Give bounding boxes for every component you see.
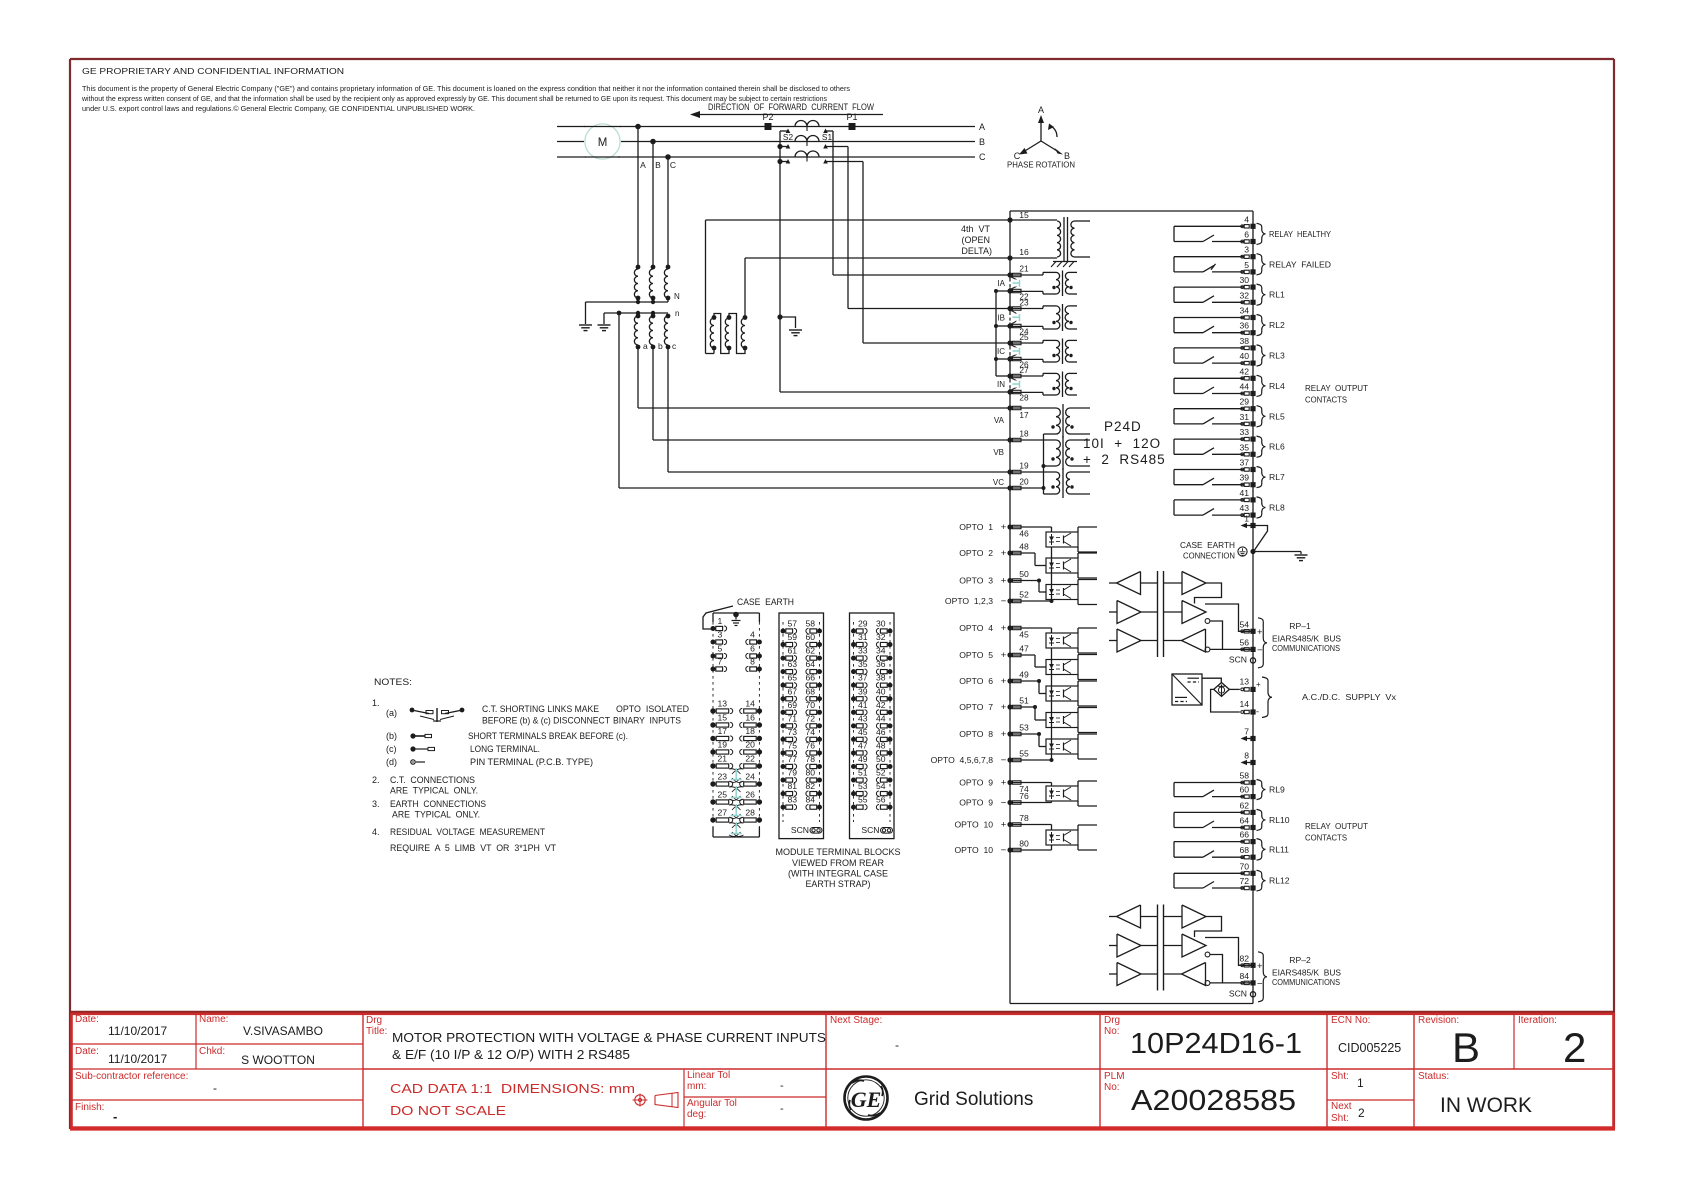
svg-text:82: 82 [805,781,815,791]
VT input VA (terminal 17) [1007,405,1012,410]
svg-text:41: 41 [858,700,868,710]
svg-text:62: 62 [1239,800,1249,810]
block2 terminal 78 [817,764,822,769]
svg-text:69: 69 [788,700,798,710]
block1 terminal 5 [711,654,716,659]
svg-text:46: 46 [876,727,886,737]
wire: IC secondary drop [862,162,864,344]
block2 terminal 79 [781,778,786,783]
svg-text:84: 84 [805,795,815,805]
wire: IN to terminal 28 [780,391,1010,393]
svg-text:EARTH CONNECTIONS: EARTH CONNECTIONS [390,799,486,809]
svg-text:+: + [1001,820,1007,831]
svg-text:−: − [1001,755,1007,766]
svg-text:Name:: Name: [199,1014,228,1025]
svg-text:B: B [979,137,985,147]
svg-text:DELTA): DELTA) [961,246,992,256]
block1 terminal 22 [757,763,762,768]
relay contact RL11 (terminals 66/68) [1174,841,1244,843]
block2 terminal 67 [781,696,786,701]
svg-text:OPTO 9: OPTO 9 [959,798,993,808]
wire: terminal 15 to open delta [706,219,1011,221]
svg-text:VIEWED FROM REAR: VIEWED FROM REAR [792,858,884,868]
buffer: transmit mid-right [1182,934,1206,957]
svg-text:RL6: RL6 [1269,442,1285,452]
svg-text:35: 35 [858,659,868,669]
svg-text:18: 18 [745,726,755,736]
svg-text:40: 40 [1239,351,1249,361]
svg-text:n: n [675,309,679,318]
block2 terminal 58 [817,629,822,634]
svg-text:76: 76 [805,740,815,750]
svg-text:65: 65 [788,673,798,683]
svg-text:-: - [213,1081,217,1095]
svg-text:MOTOR PROTECTION WITH VOLTAGE: MOTOR PROTECTION WITH VOLTAGE & PHASE CU… [392,1030,826,1045]
svg-text:Drg: Drg [1104,1015,1120,1026]
svg-text:RELAY FAILED: RELAY FAILED [1269,259,1331,269]
wire: to - terminal [1210,982,1253,984]
svg-text:26: 26 [745,790,755,800]
svg-text:10I + 12O: 10I + 12O [1083,436,1161,451]
svg-text:21: 21 [718,754,728,764]
svg-text:S2: S2 [783,132,794,142]
svg-text:A: A [640,160,646,170]
svg-text:32: 32 [1239,290,1249,300]
block3 terminal 51 [851,778,856,783]
svg-text:29: 29 [1239,397,1249,407]
svg-text:59: 59 [788,632,798,642]
CT P2 marker [765,124,771,130]
wire: phase C tap [665,154,671,160]
svg-text:51: 51 [858,768,868,778]
opto common OPTO 4,5,6,7,8 (terminal 55) [1007,757,1012,762]
svg-text:OPTO 5: OPTO 5 [959,650,993,660]
4th VT transformer [1010,219,1057,221]
block1 terminal 8 [757,667,762,672]
svg-text:−: − [1001,845,1007,856]
VT primary winding B [651,265,656,270]
wire: converter to diamond [1202,678,1221,682]
svg-text:23: 23 [718,772,728,782]
svg-text:42: 42 [1239,366,1249,376]
block3 terminal 40 [888,696,893,701]
case earth leader [703,606,733,629]
terminal 15 [1007,217,1012,222]
svg-text:OPTO 9: OPTO 9 [959,778,993,788]
svg-text:EIARS485/K BUS: EIARS485/K BUS [1272,967,1341,977]
wire: VT common rail [1043,434,1045,494]
svg-text:CID005225: CID005225 [1338,1041,1401,1055]
svg-text:Drg: Drg [366,1015,382,1026]
svg-text:20: 20 [1019,477,1029,487]
svg-text:BINARY INPUTS: BINARY INPUTS [613,716,681,726]
CT input IA (terminals 21-22) [1007,272,1012,277]
title block outline [70,1011,1614,1014]
svg-text:20: 20 [745,740,755,750]
svg-text:MODULE TERMINAL BLOCKS: MODULE TERMINAL BLOCKS [776,847,901,857]
svg-text:81: 81 [788,781,798,791]
drawing border frame [70,58,1614,60]
svg-text:38: 38 [876,673,886,683]
block2 terminal 66 [817,683,822,688]
svg-text:V.SIVASAMBO: V.SIVASAMBO [243,1024,323,1038]
svg-text:27: 27 [1019,365,1029,375]
svg-text:58: 58 [1239,771,1249,781]
svg-text:73: 73 [788,727,798,737]
svg-text:GE: GE [851,1087,882,1112]
block3 terminal 43 [851,723,856,728]
ground: CT common earth [789,329,802,331]
phase rotation symbol [1040,120,1042,141]
ground: case earth [1295,554,1308,556]
svg-text:-: - [1256,707,1259,717]
svg-text:ECN No:: ECN No: [1331,1015,1370,1026]
svg-text:+: + [1001,623,1007,634]
node: CT earth tap [777,314,782,319]
svg-text:RELAY OUTPUT: RELAY OUTPUT [1305,821,1369,831]
block3 terminal 31 [851,642,856,647]
arrow: current flow direction [697,114,883,116]
svg-text:+: + [1001,576,1007,587]
svg-text:42: 42 [876,700,886,710]
open delta VT winding 1 [712,315,717,320]
block3 terminal 30 [888,629,893,634]
relay contact RELAY FAILED (terminals 3/5) [1174,256,1244,258]
svg-text:7: 7 [718,657,723,667]
svg-text:6: 6 [1244,230,1249,240]
terminal 54 [1241,630,1244,633]
svg-text:OPTO 10: OPTO 10 [954,845,993,855]
block3 terminal 39 [851,696,856,701]
block3 terminal 37 [851,683,856,688]
svg-text:DO NOT SCALE: DO NOT SCALE [390,1103,506,1118]
svg-text:IC: IC [997,347,1005,356]
svg-text:2: 2 [1358,1106,1365,1120]
opto input OPTO 3 (terminal 50) [1007,578,1012,583]
wire: IA to terminal 21 [833,274,1010,276]
svg-text:51: 51 [1019,696,1029,706]
terminal block 2 outline [779,613,824,839]
svg-text:74: 74 [805,727,815,737]
block2 terminal 73 [781,737,786,742]
svg-text:+: + [1257,627,1263,638]
svg-text:PHASE ROTATION: PHASE ROTATION [1007,160,1075,170]
svg-text:8: 8 [750,657,755,667]
block3 terminal 42 [888,710,893,715]
svg-text:RL2: RL2 [1269,320,1285,330]
svg-text:S1: S1 [822,132,833,142]
ground: 4th VT secondary earth (hatched) [1053,261,1077,263]
block1 terminal 13 [710,708,715,713]
relay contact RL6 (terminals 33/35) [1174,438,1244,440]
svg-text:OPTO 8: OPTO 8 [959,729,993,739]
node n: VT secondary star rail [604,312,668,314]
svg-text:50: 50 [1019,569,1029,579]
AC/DC converter U-PSU [1172,674,1202,705]
svg-text:P1: P1 [846,112,857,122]
svg-text:P2: P2 [762,112,773,122]
block2 terminal 74 [817,737,822,742]
svg-text:RL12: RL12 [1269,876,1290,886]
svg-text:30: 30 [1239,275,1249,285]
svg-text:35: 35 [1239,442,1249,452]
svg-text:25: 25 [718,790,728,800]
svg-text:32: 32 [876,632,886,642]
block3 terminal 53 [851,791,856,796]
buffer: transmit mid-right [1182,601,1206,624]
relay case outline [1010,210,1253,212]
svg-text:43: 43 [858,713,868,723]
svg-text:16: 16 [1019,247,1029,257]
svg-text:75: 75 [788,740,798,750]
block2 terminal 77 [781,764,786,769]
svg-text:56: 56 [876,795,886,805]
svg-text:47: 47 [858,740,868,750]
svg-text:CASE EARTH: CASE EARTH [737,597,794,607]
svg-text:2: 2 [1563,1024,1586,1071]
svg-text:79: 79 [788,768,798,778]
svg-text:COMMUNICATIONS: COMMUNICATIONS [1272,643,1340,653]
wire: inverted output [1210,621,1223,649]
motor M [585,124,620,159]
block3 terminal 47 [851,750,856,755]
block1 terminal 3 [711,640,716,645]
svg-text:7: 7 [1244,727,1249,737]
svg-text:Linear Tol: Linear Tol [687,1070,730,1081]
svg-text:Grid Solutions: Grid Solutions [914,1089,1033,1110]
svg-text:OPTO 10: OPTO 10 [954,820,993,830]
block2 terminal 70 [817,710,822,715]
svg-text:OPTO ISOLATED: OPTO ISOLATED [616,704,689,714]
block1 terminal 19 [710,749,715,754]
block3 terminal 44 [888,723,893,728]
svg-text:25: 25 [1019,332,1029,342]
buffer: receive top [1117,572,1141,595]
svg-text:6: 6 [750,644,755,654]
block3 terminal 50 [888,764,893,769]
svg-text:33: 33 [858,646,868,656]
block1 terminal 28 [757,817,762,822]
svg-text:45: 45 [858,727,868,737]
svg-text:under U.S. export control laws: under U.S. export control laws and regul… [82,104,475,113]
svg-text:−: − [1001,798,1007,809]
svg-text:EARTH STRAP): EARTH STRAP) [806,879,871,889]
relay contact RL8 (terminals 41/43) [1174,499,1244,501]
block2 terminal 60 [817,642,822,647]
VT primary winding C [666,265,671,270]
node: case earth connection [1250,549,1255,554]
svg-text:80: 80 [1019,839,1029,849]
svg-text:15: 15 [718,713,728,723]
svg-text:EIARS485/K BUS: EIARS485/K BUS [1272,633,1341,643]
svg-text:76: 76 [1019,791,1029,801]
svg-text:44: 44 [876,713,886,723]
svg-text:+: + [1001,702,1007,713]
wire: phase A bus [557,126,585,128]
svg-text:82: 82 [1239,953,1249,963]
svg-text:+: + [1257,961,1263,972]
svg-text:11/10/2017: 11/10/2017 [108,1052,167,1066]
fuse/supply diamond [1214,683,1230,697]
svg-text:84: 84 [1239,971,1249,981]
svg-text:64: 64 [1239,816,1249,826]
svg-text:55: 55 [858,795,868,805]
svg-text:NOTES:: NOTES: [374,677,412,687]
svg-text:17: 17 [718,726,728,736]
svg-text:4.: 4. [372,827,380,837]
svg-text:60: 60 [805,632,815,642]
wire: c to terminal 19 [667,347,669,472]
svg-text:31: 31 [1239,412,1249,422]
svg-text:53: 53 [1019,723,1029,733]
wire: phase C bus [557,156,586,158]
svg-text:2.: 2. [372,775,380,785]
svg-text:36: 36 [1239,321,1249,331]
svg-text:GE PROPRIETARY AND CONFIDENTIA: GE PROPRIETARY AND CONFIDENTIAL INFORMAT… [82,66,344,76]
svg-text:78: 78 [805,754,815,764]
svg-text:A20028585: A20028585 [1131,1085,1296,1117]
svg-text:37: 37 [858,673,868,683]
CT primary phase C [795,151,819,157]
relay contact RL4 (terminals 42/44) [1174,377,1244,379]
block1 terminal 4 [757,640,762,645]
opto input OPTO 4 (terminal 45) [1007,625,1012,630]
svg-text:64: 64 [805,659,815,669]
svg-text:1: 1 [718,616,723,626]
svg-text:CAD DATA 1:1 DIMENSIONS: mm: CAD DATA 1:1 DIMENSIONS: mm [390,1081,635,1096]
terminal SCN [1250,992,1255,997]
block1 terminal 14 [757,708,762,713]
svg-text:1: 1 [1357,1076,1364,1090]
svg-text:83: 83 [788,795,798,805]
block2 terminal 76 [817,750,822,755]
svg-text:67: 67 [788,686,798,696]
block3 terminal 35 [851,669,856,674]
svg-text:RL9: RL9 [1269,785,1285,795]
svg-text:OPTO 1: OPTO 1 [959,522,993,532]
svg-text:1: 1 [1244,514,1249,524]
svg-text:4: 4 [1244,214,1249,224]
svg-text:(a): (a) [386,708,397,718]
block1 terminal 1 [711,626,716,631]
svg-text:OPTO 7: OPTO 7 [959,702,993,712]
buffer: transmit top-right [1182,905,1206,928]
block2 terminal 64 [817,669,822,674]
svg-text:B: B [1452,1024,1480,1071]
svg-text:68: 68 [1239,845,1249,855]
wire: to + terminal [1205,938,1253,966]
block1 terminal 27 [710,817,715,822]
opto input OPTO 7 (terminal 51) [1007,704,1012,709]
block1 terminal 17 [710,736,715,741]
svg-text:54: 54 [876,781,886,791]
opto input OPTO 10 (terminals 78/80) [1007,822,1012,827]
svg-text:5: 5 [718,644,723,654]
relay contact RL7 (terminals 37/39) [1174,469,1244,471]
svg-text:23: 23 [1019,297,1029,307]
svg-text:58: 58 [805,619,815,629]
symbol: protective earth [1238,547,1247,556]
svg-text:ARE TYPICAL ONLY.: ARE TYPICAL ONLY. [390,786,478,796]
svg-text:66: 66 [1239,830,1249,840]
relay contact RL10 (terminals 62/64) [1174,811,1244,813]
block1 terminal 20 [757,749,762,754]
svg-text:61: 61 [788,646,798,656]
projection symbol [635,1095,645,1105]
svg-text:14: 14 [745,699,755,709]
terminal 16 [1007,255,1012,260]
relay contact RL2 (terminals 34/36) [1174,317,1244,319]
svg-text:A: A [979,122,985,132]
svg-text:24: 24 [745,772,755,782]
svg-text:PIN TERMINAL (P.C.B. TYPE): PIN TERMINAL (P.C.B. TYPE) [470,757,593,767]
block3 terminal 46 [888,737,893,742]
block3 terminal 36 [888,669,893,674]
svg-text:LONG TERMINAL.: LONG TERMINAL. [470,744,540,754]
wire: tx output [1195,583,1222,604]
svg-text:SCN: SCN [1229,988,1247,998]
svg-text:60: 60 [1239,785,1249,795]
svg-text:This document is the property: This document is the property of General… [82,84,850,93]
svg-text:C.T. SHORTING LINKS MAKE: C.T. SHORTING LINKS MAKE [482,704,599,714]
opto input OPTO 2 (terminal 48) [1007,550,1012,555]
svg-text:(b): (b) [386,731,397,741]
svg-text:3: 3 [1244,245,1249,255]
svg-text:Sht:: Sht: [1331,1071,1349,1082]
block2 terminal 71 [781,723,786,728]
block3 terminal 56 [888,805,893,810]
terminal 7 [1243,738,1253,740]
wire: a to terminal 17 [637,347,639,408]
terminal 14 (supply -) [1211,689,1240,712]
svg-text:33: 33 [1239,427,1249,437]
wire: CT secondary commons 22-24-26 to 27 [996,290,1010,292]
svg-text:RELAY HEALTHY: RELAY HEALTHY [1269,229,1331,239]
svg-text:68: 68 [805,686,815,696]
buffer: drive bottom-left [1117,963,1141,986]
block1 terminal 18 [757,736,762,741]
svg-text:OPTO 6: OPTO 6 [959,676,993,686]
svg-text:52: 52 [1019,590,1029,600]
svg-text:RL8: RL8 [1269,503,1285,513]
block2 terminal 84 [817,805,822,810]
svg-text:OPTO 1,2,3: OPTO 1,2,3 [945,596,993,606]
block3 terminal 33 [851,656,856,661]
svg-text:CONTACTS: CONTACTS [1305,833,1347,843]
svg-text:B: B [655,160,661,170]
block1 terminal 25 [710,799,715,804]
opto input OPTO 8 (terminal 53) [1007,731,1012,736]
svg-text:54: 54 [1239,619,1249,629]
svg-text:Sub-contractor reference:: Sub-contractor reference: [75,1071,188,1082]
VT primary winding A [636,265,641,270]
svg-text:8: 8 [1244,751,1249,761]
svg-text:& E/F (10 I/P & 12 O/P) WITH 2: & E/F (10 I/P & 12 O/P) WITH 2 RS485 [392,1047,630,1062]
svg-text:No:: No: [1104,1026,1120,1037]
svg-text:1.: 1. [372,698,380,708]
svg-text:RESIDUAL VOLTAGE MEASUREMENT: RESIDUAL VOLTAGE MEASUREMENT [390,827,545,837]
wire: IC to terminal 25 [863,342,1010,344]
svg-text:VB: VB [993,448,1004,457]
terminal 1 (case earth) [1243,525,1253,527]
isolation barrier [1157,571,1159,657]
svg-text:mm:: mm: [687,1081,706,1092]
svg-text:36: 36 [876,659,886,669]
svg-text:22: 22 [745,754,755,764]
svg-text:CONNECTION: CONNECTION [1183,551,1235,561]
svg-text:72: 72 [1239,876,1249,886]
VT input VC (terminal 19) [1007,469,1012,474]
